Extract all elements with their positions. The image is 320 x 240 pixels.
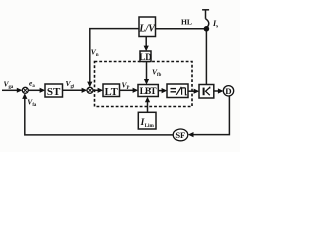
wire node down to IK <box>205 31 207 84</box>
svg-text:SF: SF <box>175 130 185 140</box>
block LT <box>103 84 120 98</box>
block LD <box>139 51 152 62</box>
dashed converter box <box>95 62 193 107</box>
block LBT <box>138 85 158 98</box>
wire ILim up to LBT <box>145 97 150 113</box>
wire SF left and up to J1 (Vfa) <box>22 93 173 135</box>
block pulse converter =/pulse <box>167 84 188 98</box>
wire D down and left to SF <box>188 96 230 137</box>
node dot <box>204 26 210 32</box>
wire J1 to ST <box>28 88 45 93</box>
wire IK to D <box>214 88 224 93</box>
summing junction J1 <box>22 87 28 93</box>
wire LD down to LBT (Vfb) <box>144 62 149 85</box>
svg-text:HL: HL <box>181 17 192 26</box>
block L/V <box>138 17 156 37</box>
block ILim current limit <box>138 112 156 129</box>
summing junction J2 <box>87 87 93 93</box>
svg-text:LT: LT <box>105 87 118 98</box>
motor circle D <box>223 86 233 96</box>
block ST <box>45 84 63 98</box>
svg-text:L/V: L/V <box>138 24 156 35</box>
wire L/V to node (HL line) <box>156 28 205 30</box>
svg-text:LBT: LBT <box>140 87 158 97</box>
wire LBT to pulse converter <box>158 88 167 93</box>
wire pulse converter to IK <box>188 89 199 94</box>
svg-text:LD: LD <box>139 52 152 62</box>
wire ST to J2 <box>63 88 88 93</box>
wire input Vga arrow into summing junction 1 <box>2 88 22 93</box>
svg-text:D: D <box>225 86 231 96</box>
svg-text:ST: ST <box>47 86 61 98</box>
switch Is <box>202 10 209 27</box>
wire L/V down to LD <box>144 37 149 52</box>
wire LT to LBT <box>120 88 139 93</box>
wire J2 to LT <box>93 88 103 93</box>
wire L/V left and down to J2 (Vn) <box>87 29 139 88</box>
svg-text:Lim: Lim <box>145 123 155 129</box>
speed feedback circle SF <box>173 129 188 141</box>
block IK power switch <box>199 85 214 99</box>
